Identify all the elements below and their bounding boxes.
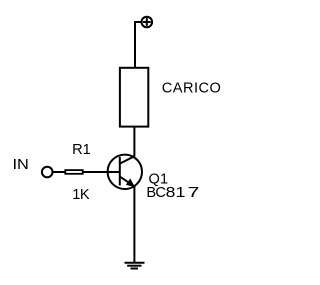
svg-text:R1: R1 — [72, 142, 91, 158]
svg-text:IN: IN — [13, 157, 29, 173]
svg-text:BC: BC — [146, 185, 166, 201]
svg-text:8: 8 — [166, 184, 176, 200]
svg-text:7: 7 — [188, 184, 200, 200]
svg-text:CARICO: CARICO — [162, 80, 221, 96]
svg-text:1K: 1K — [72, 187, 90, 203]
svg-text:1: 1 — [176, 184, 186, 200]
